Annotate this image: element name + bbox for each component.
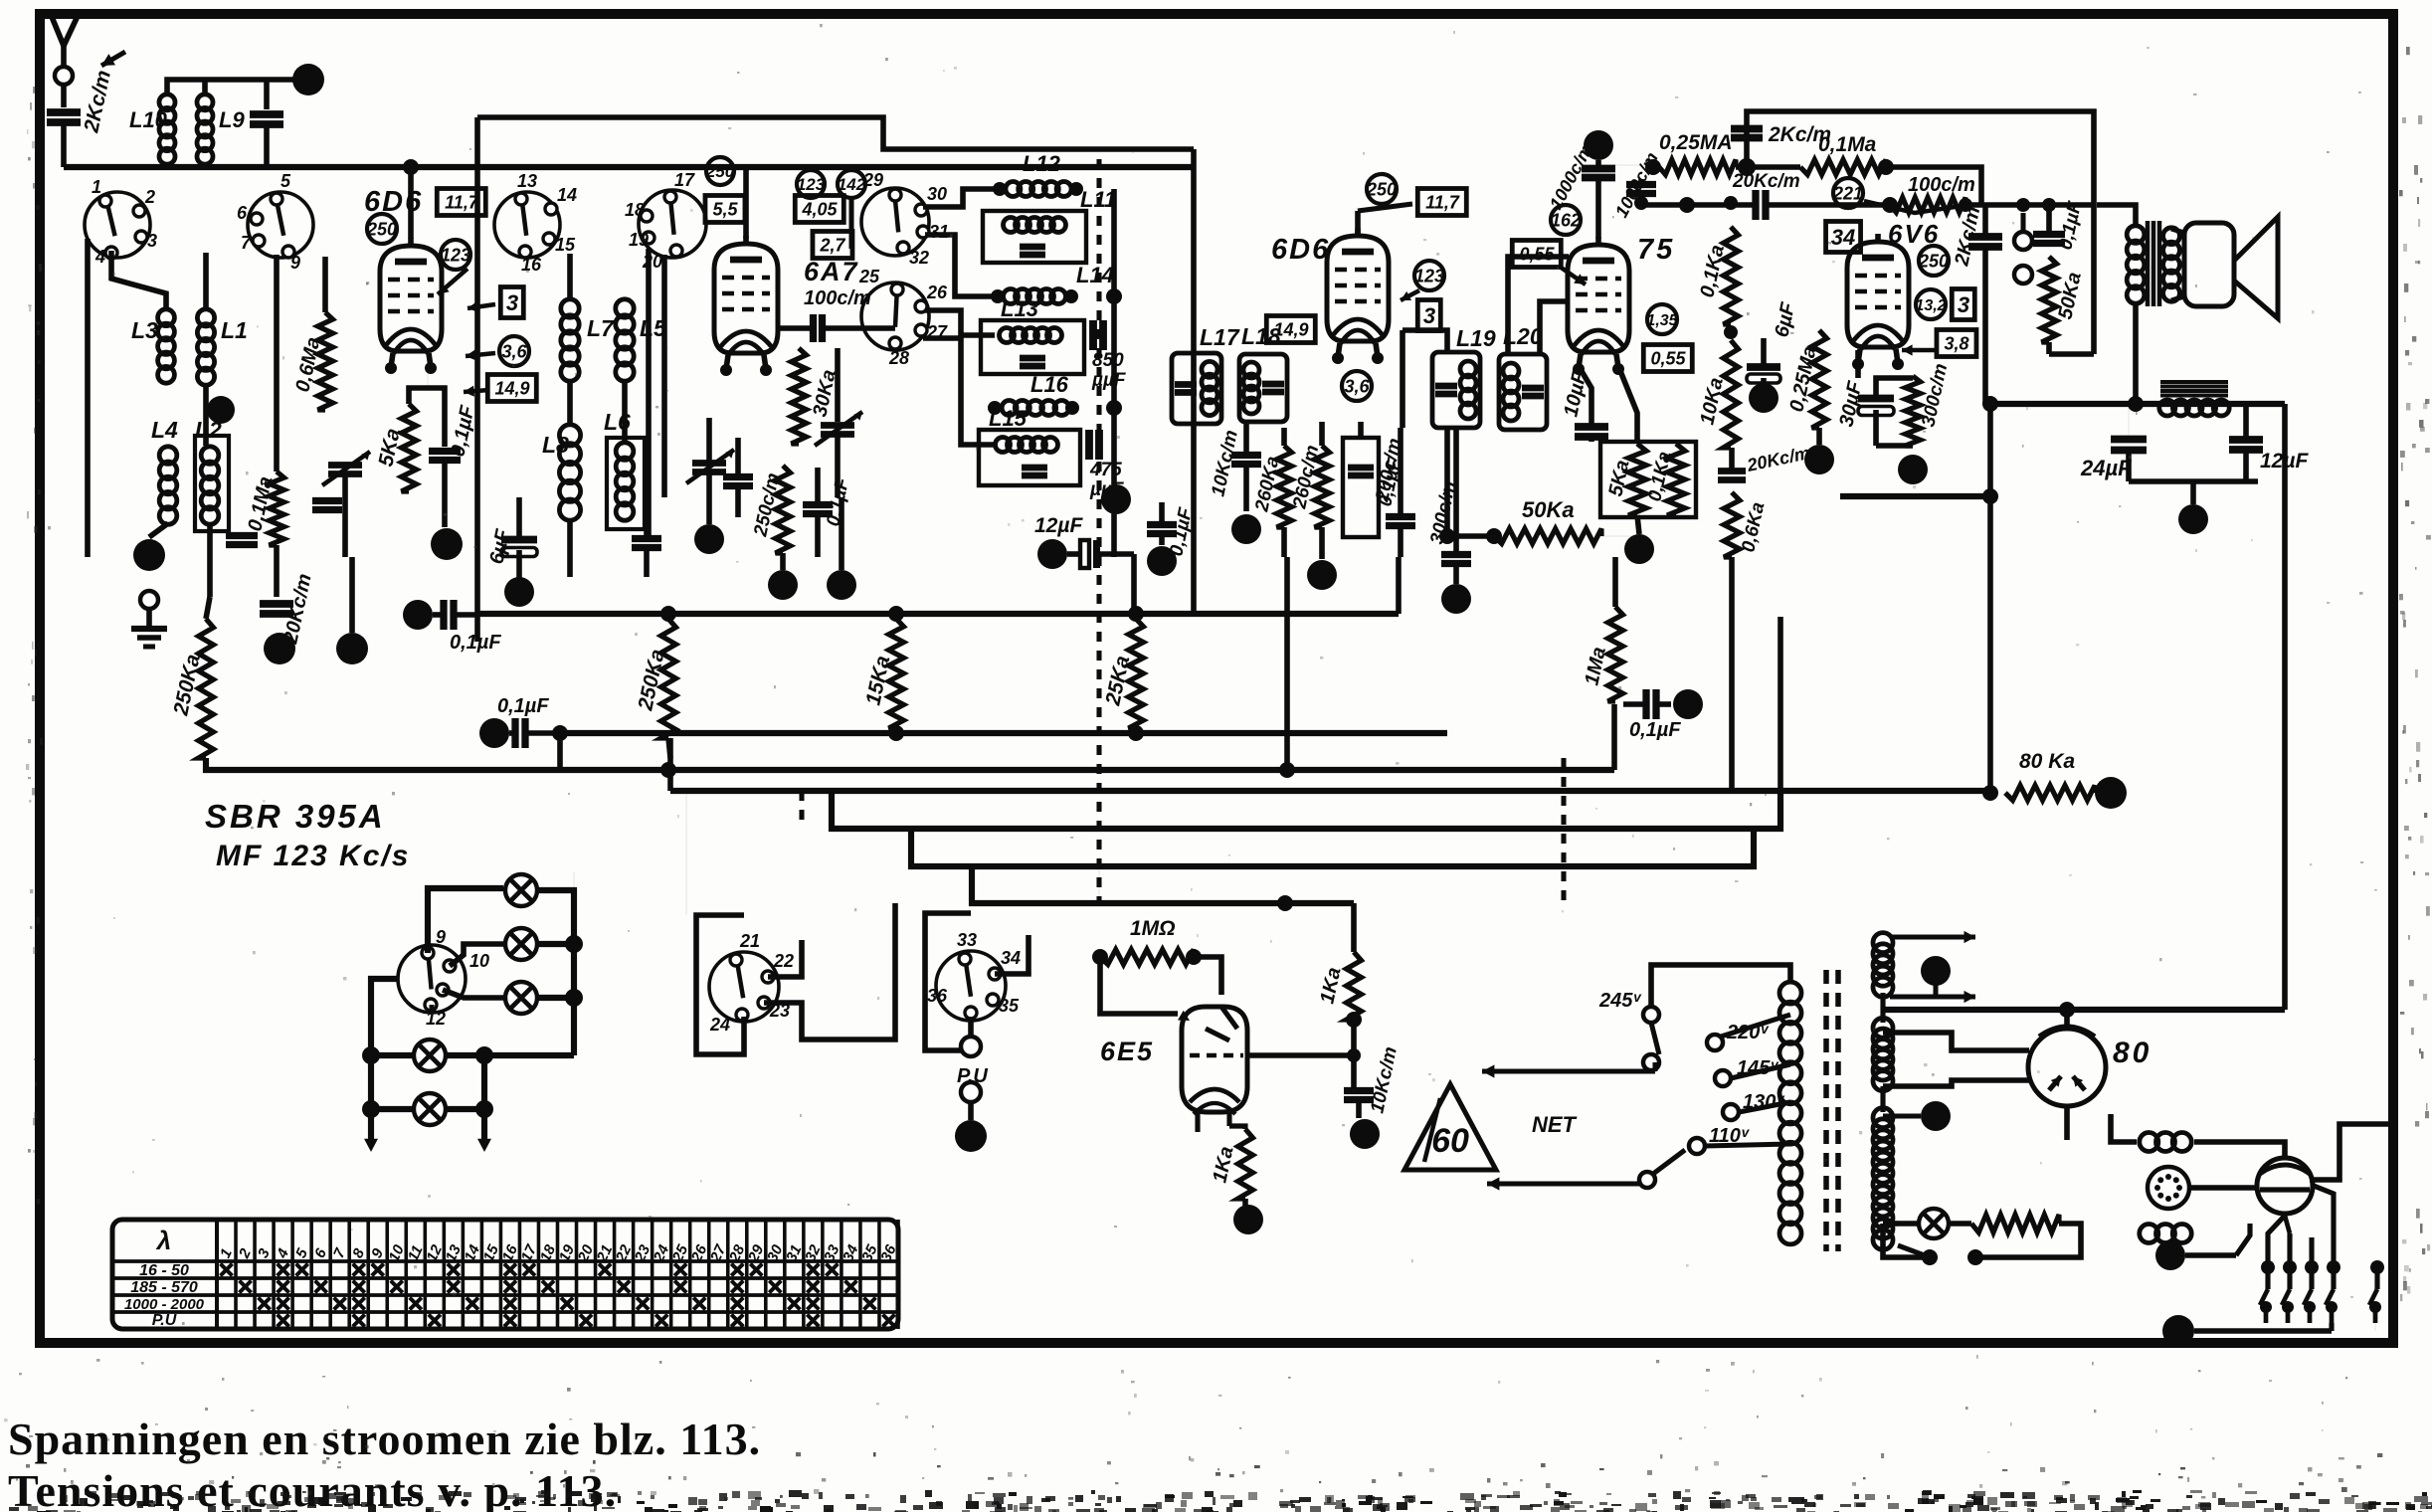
svg-text:22: 22 [773,951,794,971]
tap 220V [1707,1035,1723,1050]
terminal dot 6uF 75 [1749,383,1778,413]
svg-text:L10: L10 [129,107,168,132]
svg-text:75: 75 [1637,234,1675,266]
wire route A [685,791,687,915]
socket BN pins 21-24 [709,952,779,1022]
wire socketE to L12 [923,189,1000,207]
spare socket can bottom coil [2140,1225,2158,1243]
svg-text:6A7: 6A7 [804,257,859,286]
tap switch lever [1651,1023,1659,1054]
capacitor 6uF 75 [1747,363,1780,371]
coil L8 [559,425,580,446]
svg-text:0,25MA: 0,25MA [1659,131,1733,154]
wire L1 top [203,253,209,310]
output transformer primary [2127,226,2145,244]
wire ballast right [2310,1124,2393,1180]
dashed gang line 2 [1561,758,1566,903]
socket S5 pins 29-32 [861,188,929,256]
wire switch fan [2268,1216,2285,1267]
terminal dot busC right [1673,689,1703,719]
svg-text:185 - 570: 185 - 570 [130,1279,198,1296]
coil L12 [993,182,1007,196]
wire x2297 down [2282,404,2288,1010]
svg-text:26: 26 [926,283,948,302]
svg-text:5: 5 [281,171,291,191]
ground symbol [146,609,152,629]
resistor 0.6Ka [1724,492,1740,557]
lamp socket pins 9-12 [398,945,466,1013]
table crosses [221,1264,233,1276]
svg-text:80 Ka: 80 Ka [2019,750,2075,773]
capacitor 12uF [2229,436,2263,444]
PU terminal 1 [961,1037,981,1056]
wire 1Ka top [1351,903,1357,952]
svg-text:475: 475 [1089,460,1122,480]
svg-text:L1: L1 [221,317,248,343]
coil L2 [201,447,219,465]
coil L10 [159,94,175,110]
terminal dot 0.1uF coil bank [1147,546,1177,576]
tube V6 80 rectifier [2028,1029,2106,1106]
capacitor 300c/m [1441,551,1471,558]
wire socketE to L14 [925,235,998,296]
6E5 pins [1195,1112,1200,1132]
circle value 123 6A7 [797,170,825,198]
secondary arrow top [1890,934,1975,939]
coil L5 [616,299,634,317]
coil L16 [988,401,1002,415]
terminal dot mid1 [336,633,368,664]
circle value 123 [441,240,470,270]
box around L11 [983,211,1086,263]
terminal dot 260ohm bottom [1319,527,1325,559]
svg-text:11,7: 11,7 [445,192,479,212]
junction 0.25MA right [1738,158,1756,176]
capacitor 200c/m [1386,513,1415,520]
wire coil bank right vertical [1111,189,1117,557]
variable capacitor osc [821,422,854,429]
wire bus A y617 [477,611,1399,617]
capacitor 0.1uF busB [479,718,509,748]
box value 14.9 [487,375,536,402]
arrow mark [101,52,125,66]
svg-text:Spanningen en stroomen zie blz: Spanningen en stroomen zie blz. 113. [8,1414,761,1464]
svg-text:L4: L4 [151,417,178,443]
IF can L18 [1239,354,1287,422]
capacitor 0.1uF busC right [1642,689,1649,719]
tube V4 75 [1568,245,1629,352]
jack contacts [2014,232,2032,250]
capacitor fixed osc [312,497,342,504]
IF can L19 [1432,352,1480,428]
table frequency switch chart [112,1220,898,1329]
terminal dot 1Ka lower [1242,1199,1248,1206]
tap 145V [1715,1070,1731,1086]
circle value 250 V3 [1367,174,1397,204]
wire bottom right [2194,1328,2332,1334]
svg-text:L17: L17 [1200,324,1240,350]
wire 1Mohm left loop [1100,957,1178,1014]
svg-text:9: 9 [436,927,446,947]
svg-text:L9: L9 [219,107,245,132]
wire bus y405 [1990,401,2285,407]
capacitor 20Kc/m left [274,545,280,597]
wire bus y168 [64,164,1194,170]
capacitor 2Kc/m antenna [47,108,81,116]
dial lamp L2 [505,928,537,960]
capacitor antenna coupling [264,80,270,109]
wire 260 tops [1281,428,1287,446]
dial lamp L1 [505,874,537,906]
wire x1140 [1131,554,1137,611]
svg-text:6E5: 6E5 [1100,1037,1154,1066]
capacitor 20Kc/m mid [1752,190,1759,220]
antenna terminal [55,67,73,85]
circle value 1.35 [1647,304,1677,334]
pilot lamp [1919,1209,1949,1238]
multi switch verticals [2261,1260,2275,1274]
resistor 250Ka mid [661,619,676,738]
wire L4 bottom [149,523,168,537]
svg-text:L15: L15 [989,406,1028,431]
svg-text:13: 13 [517,171,537,191]
resistor 0.1MA [1800,160,1886,175]
tube V3 6D6 [1327,236,1389,341]
box value 11.7 [437,189,485,216]
svg-text:µµF: µµF [1091,370,1127,391]
wire 24uF bottom [2129,478,2258,484]
wire OT down [2133,302,2139,404]
power transformer core [1823,970,1829,1251]
dial lamp L3 [505,982,537,1014]
svg-text:L2: L2 [195,417,222,443]
wire L1-L2 [203,384,209,446]
coil L15 [996,438,1011,453]
capacitor 10Kc/m 6E5 [1344,1087,1374,1094]
svg-text:250: 250 [1918,251,1949,271]
svg-text:SBR 395A: SBR 395A [205,798,386,835]
capacitor 1000c/m second [1626,181,1656,188]
svg-text:100c/m: 100c/m [804,287,871,309]
svg-text:3: 3 [506,290,518,315]
wire 6E5 cathode to 1Ka [1229,1126,1245,1129]
resistor 260ohm [1315,446,1330,527]
wire rectifier bottom [2064,1106,2070,1140]
capacitor 2Kc/m 6V6 [1968,233,2002,241]
wire y1015 [1883,1007,2285,1013]
svg-text:32: 32 [909,248,929,268]
box around L15 [979,430,1080,485]
box value 3.8 [1937,330,1976,357]
resistor 0.25Ma 75 [1812,330,1827,428]
box value 2.7 [813,232,852,259]
svg-text:20Kc/m: 20Kc/m [1732,171,1800,192]
svg-text:18: 18 [625,200,645,220]
scan noise bottom [1555,1491,1561,1494]
capacitor 0.1uF 6A7 [803,501,833,508]
box value 34 [1826,222,1861,253]
tube V2 6A7 [714,244,778,353]
socket S3 pins 13-16 [494,192,560,258]
svg-text:1: 1 [92,177,101,197]
terminal dot 10Kc/m [1231,514,1261,544]
wire 0.6Ma top [322,257,328,312]
wire busC up right [1611,704,1617,770]
coil L4 [159,447,177,465]
wire bus C start corner [206,758,560,770]
svg-text:3: 3 [147,231,157,251]
socket S4 pins 17-20 [639,190,706,258]
resistor 50Ka [1494,529,1601,544]
power transformer secondary winding B [1873,1018,1893,1038]
svg-text:14: 14 [557,185,577,205]
box 5K-0.1K [1600,442,1696,517]
tube V5 6V6 [1847,242,1909,347]
capacitor 100ohm [810,314,817,342]
svg-text:11,7: 11,7 [1425,192,1460,212]
svg-text:6D6: 6D6 [1271,234,1330,266]
svg-text:10: 10 [469,951,489,971]
svg-text:1MΩ: 1MΩ [1130,917,1176,940]
wire 75 right pin to box [1618,366,1637,442]
wire trimmer down [342,475,348,557]
wire L7-L8 [567,380,573,426]
coil L11 [1004,218,1019,233]
wire ballast top [2218,1142,2285,1158]
capacitor 0.1uF coil bank [1147,521,1177,528]
wire y497 [1840,493,1990,499]
wire x2001 down [1987,404,1993,793]
wire socketF to L15 [923,338,995,445]
trimmer capacitor osc [328,462,362,469]
wire bus y795 [670,788,1990,794]
junction dot L2 top [207,396,235,424]
resistor 100ohm 6V6 [1890,198,1965,213]
svg-text:1,35: 1,35 [1646,312,1678,329]
box around L2 [195,436,229,531]
circle value 250 6V6 [1919,246,1949,276]
terminal dot 6A7 d [827,570,856,600]
resistor 5Ka det [402,404,417,491]
capacitor 20Kc/m lower [1718,468,1746,474]
wire y166 segment [1598,164,1653,166]
svg-text:4,05: 4,05 [801,199,838,219]
terminal dot 6A7 c [768,570,798,600]
wire 75 grid to L20 [1508,257,1569,354]
wire V3 grid cap [1355,211,1361,236]
circle value 3.6 V3 [1342,371,1372,401]
coil L13 [1000,328,1015,343]
wire 5Ka top joins [409,388,445,404]
svg-text:L8: L8 [542,432,569,458]
wire bus y833 [832,791,1780,829]
box value 14.9 V3 [1266,316,1315,343]
resistor 0.1Ka 75 [1724,227,1739,324]
box value 5.5 [705,196,745,223]
resistor 0.6Ma [318,312,333,410]
output transformer secondary [2163,228,2180,245]
tube V1 6D6 [380,246,442,351]
svg-text:100c/m: 100c/m [1908,174,1975,196]
circle value 142 [838,170,865,198]
spare socket can top coil [2140,1133,2158,1152]
wire socketD pin19 down [646,249,652,537]
terminal dot 0.1uF det [431,528,463,560]
junction dots bus C [660,762,676,778]
svg-text:L14: L14 [1076,263,1114,287]
spare socket [2148,1167,2189,1209]
resistor 0.1Ma input [270,472,284,545]
capacitor 6A7 b [723,473,753,480]
capacitor L13 right [1089,320,1097,350]
circle value 3.6 [499,336,529,366]
dial lamp wire 4 [371,1052,412,1058]
svg-text:15: 15 [555,235,576,255]
speaker [2184,223,2234,306]
capacitor 0.1uF IF [1348,465,1374,472]
socket PU pins 33-36 [936,951,1006,1021]
wire 75 cathode pin to cap [1579,366,1591,406]
wire busA right corner [1396,557,1402,614]
capacitor L15 bottom [1022,465,1047,472]
wire 0.1Ma top [274,255,280,472]
capacitor under L6 [632,535,661,542]
svg-text:NET: NET [1532,1112,1578,1137]
net arrow lower [1487,1181,1639,1186]
wire 6V6 cathode [1855,350,1861,378]
svg-text:28: 28 [888,348,909,368]
coil L7 [561,299,579,317]
resistor 0.25MA [1645,159,1661,175]
wire socket1 to L3 [111,251,166,310]
tap 110V [1689,1138,1705,1154]
coil L3 [158,309,175,326]
box value 0.55 left [1512,241,1561,268]
resistor 30Ka [792,348,807,444]
wire OT top [2097,205,2136,227]
wire x563 down [557,733,563,770]
svg-text:MF 123 Kc/s: MF 123 Kc/s [216,840,410,872]
svg-text:4: 4 [94,247,105,267]
svg-text:5,5: 5,5 [712,199,738,219]
terminal dot filament CT [1921,956,1951,986]
coil L1 [197,309,214,326]
resistor 80Ka [2005,786,2095,801]
wire 142 drop [848,198,853,249]
terminal circle ground lead [140,591,158,609]
capacitor 1000c/m pair [1595,160,1601,167]
wire socketF to L13 [925,310,995,335]
wire 75 diode to L20 cap [1540,301,1569,354]
resistor 15Ka [889,619,904,728]
wire 6E5 anode y1061 [1247,1052,1354,1058]
svg-text:12µF: 12µF [1034,514,1083,537]
coil L9 [197,94,213,110]
capacitor below 0.1Ma [226,532,258,539]
circle value 250 [367,214,397,244]
dashed gang to BN [799,791,804,826]
wire bus y871 [911,829,1754,866]
switch pilot [1967,1249,1983,1265]
svg-text:3,6: 3,6 [501,341,527,361]
dial lamp L5 [414,1093,446,1125]
svg-text:24: 24 [709,1015,730,1035]
dial lamp left wire [371,979,398,1139]
resistor 300ohm [1906,376,1921,446]
net arrow upper [1482,1068,1655,1073]
svg-text:34: 34 [1831,225,1855,250]
svg-text:21: 21 [739,931,760,951]
svg-text:20: 20 [642,252,662,272]
svg-text:12: 12 [426,1009,446,1029]
svg-text:13,2: 13,2 [1915,297,1946,314]
coil L14 [991,289,1005,303]
terminal dot 80Ka [2095,777,2127,809]
terminal dot 10Kc/m 6E5 [1350,1119,1380,1149]
terminal dot 300c/m [1441,584,1471,614]
pilot loop [1975,1224,2081,1257]
svg-text:25: 25 [858,267,880,286]
tap 130V [1723,1104,1739,1120]
svg-text:6D6: 6D6 [364,186,423,218]
svg-text:80: 80 [2113,1037,2151,1069]
wire gang to bus [1098,866,1100,903]
junction dots bus [660,606,676,622]
capacitor 0.1uF 6V6 [2033,231,2065,238]
dial lamp L4 [414,1039,446,1071]
wire L17 leads [1193,611,1195,614]
capacitor L15 right [1085,430,1093,460]
wire PU loop [925,913,971,1050]
power transformer secondary winding A [1873,933,1893,953]
circle value 162 [1551,205,1581,235]
secondary connecting stubs [1880,993,1885,1023]
PU terminal 2 [961,1082,981,1102]
svg-text:14,9: 14,9 [494,378,529,398]
switch arrow mid [2185,1252,2236,1258]
svg-text:36: 36 [927,986,948,1006]
wire 1Mohm right to grid [1194,957,1221,995]
wire 0.1MA to plate line [1886,167,1981,205]
terminal dot bottom right [2162,1315,2194,1347]
PU terminal dot [968,1102,974,1120]
wire antenna to bus [61,122,67,167]
6E5 target vane [1221,1007,1237,1029]
wire socketD pin20 down [661,255,667,497]
wire speaker leads [2171,229,2184,233]
wire coil tops [167,80,308,95]
svg-text:L7: L7 [587,315,615,341]
svg-text:L3: L3 [131,317,158,343]
dial lamp wire 3 [443,990,503,998]
net switch lever [1639,1172,1655,1188]
wire x1200 vertical [1191,149,1197,611]
box value 3 6V6 [1952,289,1974,320]
svg-text:250: 250 [366,219,397,239]
wire antenna down [61,85,67,107]
wire 260Ka bottom to bus [1281,527,1287,557]
resistor 10Ka [1724,340,1739,448]
power transformer secondary winding C [1873,1108,1893,1128]
svg-text:L19: L19 [1456,325,1496,351]
capacitor 30uF [1858,395,1894,403]
IF can L20 [1499,354,1547,430]
wire vertical x480 [474,117,480,642]
svg-text:142: 142 [838,175,866,194]
primary top wire [1651,965,1790,1007]
wire grid cap V1 [408,167,414,239]
svg-text:2Kc/m: 2Kc/m [1768,123,1831,146]
